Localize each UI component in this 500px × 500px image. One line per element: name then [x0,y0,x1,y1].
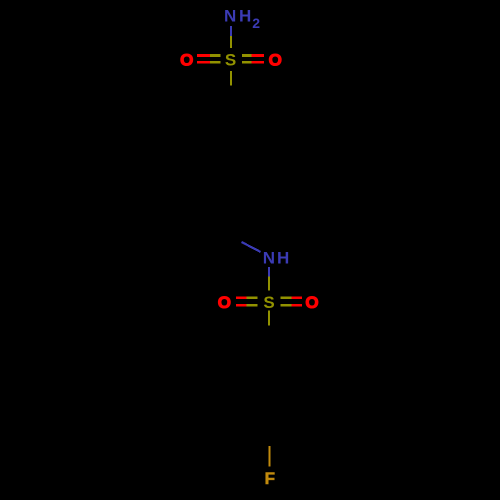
double bond S1=O right, lower line [242,61,264,64]
bond S2-C8 sulfur half (olive stub) [268,310,270,325]
bond N1-S1 sulfur half [230,36,232,48]
bond N2-S2 sulfur half [268,276,270,290]
svg-text:O: O [305,293,318,312]
bond S1-C1 carbon half (invisible) [230,86,232,104]
double bond S2=O right, upper line [280,296,301,299]
svg-text:O: O [218,293,231,312]
double bond S1=O left, upper line [197,54,221,57]
svg-text:H: H [239,7,251,26]
bond C11-F carbon half (invisible) [268,434,270,446]
bond C4-C7 (ring1 to CH2, invisible) [230,192,232,236]
svg-text:S: S [225,51,236,70]
svg-text:2: 2 [252,15,260,31]
svg-text:O: O [269,51,282,70]
bond C11-F fluorine half (gold stub) [268,446,270,467]
double bond S2=O left, upper line [236,296,257,299]
svg-text:S: S [263,293,274,312]
bond N2-S2 nitrogen half [268,267,270,277]
bond N1-S1 nitrogen half [230,26,232,36]
double bond S1=O right, upper line [242,54,264,57]
svg-text:F: F [265,469,275,488]
svg-text:H: H [277,249,289,268]
double bond S2=O right, lower line [280,304,301,307]
svg-text:N: N [224,7,236,26]
double bond S1=O left, lower line [197,61,221,64]
bond C7-N2 nitrogen half (blue diagonal) [242,242,261,252]
svg-text:O: O [180,51,193,70]
benzene ring 2 (carbons, invisible black) [231,346,307,434]
bond S1-C1 sulfur half (olive stub) [230,71,232,86]
svg-text:N: N [263,249,275,268]
bond C7-N2 carbon half (invisible) [231,236,242,242]
benzene ring 1 (carbons, invisible black) [193,104,269,192]
bond S2-C8 carbon half (invisible) [268,325,270,345]
double bond S2=O left, lower line [236,304,257,307]
